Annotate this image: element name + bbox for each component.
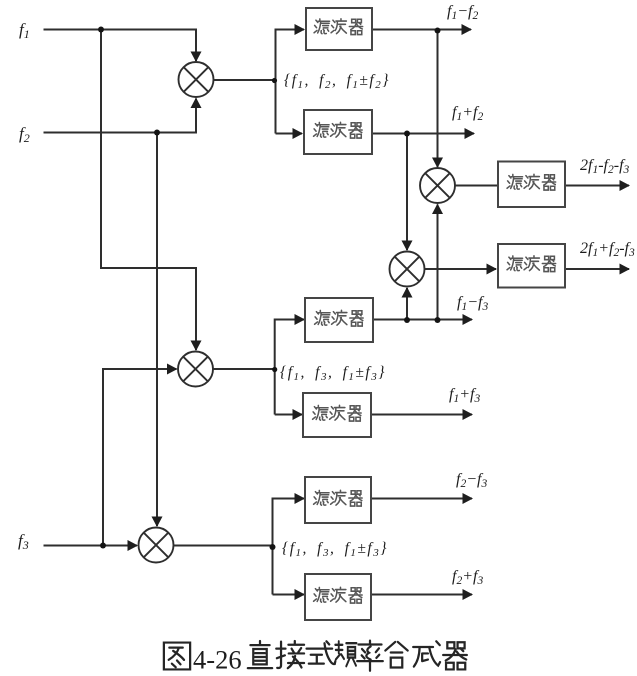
- wire filter F6 output f1+f3: [371, 414, 472, 416]
- junction dot f1-f3 line at M4 tap: [404, 317, 410, 323]
- wire top splitter to filter F1: [276, 30, 305, 134]
- filter F1 label 滤波器: [314, 19, 363, 35]
- filter F6 label 滤波器: [313, 405, 362, 421]
- wire f2 input to mixer M1 bottom: [44, 99, 197, 133]
- wire f1-f2 tap down to mixer M3 top: [437, 30, 439, 168]
- wire f1-f3 tap up to mixer M3 bottom: [437, 205, 439, 320]
- svg-text:2f1-f2-f3: 2f1-f2-f3: [580, 157, 630, 176]
- filter box F7: [305, 477, 371, 523]
- wire f1 branch down to mixer M2 top: [101, 30, 196, 351]
- mixer M4: [390, 252, 425, 287]
- filter F4 label 滤波器: [507, 256, 556, 272]
- junction dot on f1-f2 line: [435, 28, 441, 34]
- filter box F3: [498, 162, 565, 208]
- svg-text:2f1+f2-f3: 2f1+f2-f3: [580, 240, 635, 259]
- wire bottom splitter to filter F7: [273, 499, 305, 595]
- svg-text:f2+f3: f2+f3: [452, 568, 483, 587]
- wire filter F2 output f1+f2: [372, 133, 474, 135]
- filter box F8: [305, 574, 371, 620]
- wire filter F8 output f2+f3: [371, 594, 472, 596]
- mixer M5: [139, 528, 174, 563]
- wire f3 input to mixer M5 left: [44, 545, 138, 547]
- wire f3 branch up to mixer M2 left: [103, 369, 177, 546]
- junction dot top splitter: [272, 78, 277, 83]
- svg-text:f3: f3: [18, 531, 29, 552]
- svg-text:f1−f2: f1−f2: [447, 3, 478, 22]
- filter F8 label 滤波器: [314, 587, 363, 603]
- junction dot middle splitter: [272, 367, 277, 372]
- wire filter F3 output 2f1-f2-f3: [565, 185, 629, 187]
- mixer M2: [178, 352, 213, 387]
- svg-text:{f1, f2, f1±f2}: {f1, f2, f1±f2}: [284, 72, 390, 91]
- filter F3 label 滤波器: [507, 174, 556, 190]
- wire mixer M3 output to filter F3: [455, 185, 498, 187]
- svg-text:f1: f1: [19, 20, 30, 41]
- filter F7 label 滤波器: [314, 490, 363, 506]
- svg-text:f2: f2: [19, 124, 30, 145]
- filter box F2: [304, 110, 372, 154]
- wire f2 branch down to mixer M5 top: [156, 133, 158, 527]
- caption 图4-26 直接式频率合成器: [164, 641, 467, 675]
- svg-text:f1−f3: f1−f3: [457, 294, 488, 313]
- wire top splitter to filter F2: [276, 133, 303, 135]
- svg-text:4-26: 4-26: [193, 645, 242, 675]
- wire mixer M1 output to top splitter: [214, 79, 276, 81]
- wire f1-f3 tap up to mixer M4 bottom: [406, 288, 408, 320]
- svg-text:{f1, f3, f1±f3}: {f1, f3, f1±f3}: [280, 364, 386, 383]
- filter box F1: [306, 8, 372, 50]
- mixer M3: [420, 168, 455, 203]
- junction dot on f3 line: [100, 543, 106, 549]
- filter box F6: [303, 393, 371, 437]
- junction dot f1-f3 line at M3 tap: [435, 317, 441, 323]
- wire mixer M4 output to filter F4: [425, 268, 497, 270]
- svg-text:f1+f3: f1+f3: [449, 386, 480, 405]
- wire mixer M5 output to bottom splitter: [174, 545, 273, 547]
- wire filter F4 output 2f1+f2-f3: [565, 268, 629, 270]
- filter F2 label 滤波器: [314, 122, 363, 138]
- mixer M1: [179, 62, 214, 97]
- svg-text:f1+f2: f1+f2: [452, 104, 483, 123]
- filter F5 label 滤波器: [315, 310, 364, 326]
- junction dot on f1 line: [98, 27, 104, 33]
- wire middle splitter to filter F5: [275, 320, 304, 415]
- wire mixer M2 output to middle splitter: [213, 368, 275, 370]
- filter box F5: [305, 298, 373, 342]
- filter box F4: [498, 244, 565, 288]
- svg-text:f2−f3: f2−f3: [456, 471, 487, 490]
- junction dot bottom splitter: [270, 544, 276, 550]
- wire middle splitter to filter F6: [275, 414, 302, 416]
- junction dot on f1+f2 line: [404, 131, 410, 137]
- junction dot on f2 line: [154, 130, 160, 136]
- wire filter F7 output f2-f3: [371, 498, 472, 500]
- wire filter F5 output f1-f3: [373, 319, 472, 321]
- wire bottom splitter to filter F8: [273, 594, 305, 596]
- wire f1 input to mixer M1 top: [44, 30, 197, 62]
- svg-text:{f1, f3, f1±f3}: {f1, f3, f1±f3}: [282, 540, 388, 559]
- wire f1+f2 tap down to mixer M4 top: [406, 134, 408, 251]
- wire filter F1 output f1-f2: [372, 29, 471, 31]
